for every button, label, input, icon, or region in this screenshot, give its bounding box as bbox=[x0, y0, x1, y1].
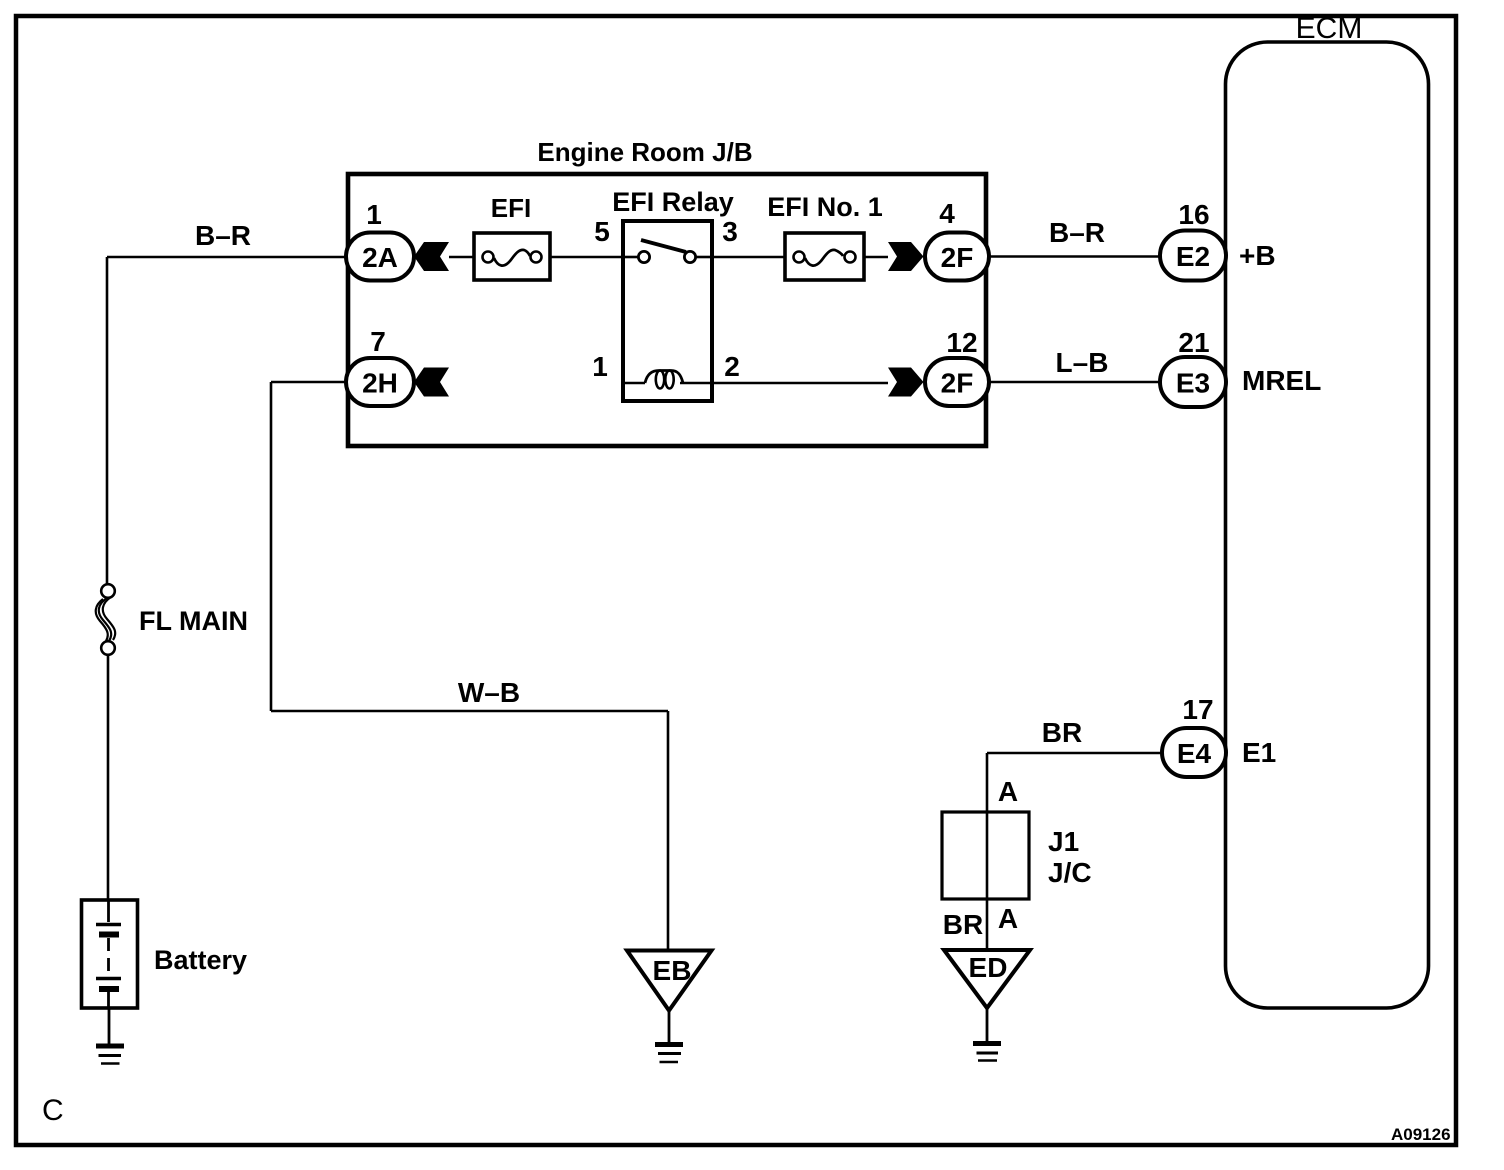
relay switch blade bbox=[641, 240, 686, 252]
svg-text:17: 17 bbox=[1182, 694, 1213, 725]
svg-text:2A: 2A bbox=[362, 242, 398, 273]
fuse EFI bbox=[474, 193, 550, 280]
svg-text:J1: J1 bbox=[1048, 826, 1079, 857]
svg-text:EFI: EFI bbox=[491, 193, 531, 223]
connector E3 body bbox=[1160, 357, 1226, 407]
wire L-B: 2F-12 to E3 bbox=[989, 347, 1160, 382]
wire B-R: 2F-4 to E2 bbox=[989, 217, 1160, 257]
svg-text:2: 2 bbox=[724, 351, 740, 382]
svg-text:A09126: A09126 bbox=[1391, 1125, 1451, 1144]
svg-text:FL MAIN: FL MAIN bbox=[139, 606, 248, 636]
connector E3 bbox=[1160, 327, 1226, 407]
ground at battery bbox=[96, 1008, 124, 1064]
relay coil bbox=[645, 371, 683, 384]
wire FL MAIN to battery bbox=[107, 655, 110, 899]
connector E2 body bbox=[1160, 231, 1226, 281]
svg-text:W–B: W–B bbox=[458, 677, 520, 708]
relay contact terminal left bbox=[638, 251, 649, 262]
svg-text:A: A bbox=[998, 776, 1018, 807]
svg-text:ED: ED bbox=[969, 952, 1008, 983]
splice arrow at 2F-12 bbox=[888, 368, 924, 397]
svg-text:1: 1 bbox=[366, 199, 382, 230]
svg-text:B–R: B–R bbox=[1049, 217, 1105, 248]
wire pin 1 to coil bbox=[623, 382, 645, 385]
wire 2A to fuse EFI bbox=[449, 256, 474, 259]
wire B-R: battery feed to connector 2A bbox=[107, 220, 345, 584]
wire relay pin 2 to connector 2F-12 bbox=[712, 382, 888, 385]
svg-text:C: C bbox=[42, 1094, 64, 1127]
svg-text:7: 7 bbox=[370, 326, 386, 357]
junction connector J1 J/C bbox=[942, 812, 1092, 899]
splice arrow at 2F-4 bbox=[888, 242, 924, 271]
relay box bbox=[623, 221, 712, 401]
svg-text:EFI No. 1: EFI No. 1 bbox=[767, 192, 883, 222]
connector 2F pin 4 bbox=[925, 198, 989, 281]
connector 2F pin 12 bbox=[925, 327, 989, 406]
svg-text:12: 12 bbox=[946, 327, 977, 358]
connector E2 bbox=[1160, 199, 1226, 281]
wire W-B: connector 2H to ground EB bbox=[271, 382, 668, 950]
wire fuse EFI to relay pin 5 bbox=[550, 256, 623, 259]
svg-text:E2: E2 bbox=[1176, 241, 1210, 272]
relay contact terminal right bbox=[684, 251, 695, 262]
svg-text:EB: EB bbox=[653, 955, 692, 986]
wire relay pin 3 to fuse EFI No.1 bbox=[712, 256, 785, 259]
svg-text:Engine Room J/B: Engine Room J/B bbox=[537, 137, 752, 167]
svg-text:MREL: MREL bbox=[1242, 365, 1321, 396]
svg-text:E3: E3 bbox=[1176, 368, 1210, 399]
wire coil to pin 2 bbox=[680, 382, 712, 385]
wire pin 5 to contact bbox=[623, 256, 638, 259]
svg-text:ECM: ECM bbox=[1296, 12, 1363, 45]
wire BR: junction J1 to E4 bbox=[987, 717, 1162, 950]
svg-text:4: 4 bbox=[939, 198, 955, 229]
fusible link FL MAIN bbox=[96, 584, 248, 655]
svg-text:2H: 2H bbox=[362, 368, 398, 399]
svg-text:+B: +B bbox=[1239, 240, 1276, 271]
connector 2A bbox=[346, 199, 414, 281]
connector 2H body bbox=[346, 358, 414, 406]
svg-text:B–R: B–R bbox=[195, 220, 251, 251]
splice arrow at 2A bbox=[414, 242, 449, 271]
svg-text:L–B: L–B bbox=[1056, 347, 1109, 378]
svg-text:5: 5 bbox=[594, 216, 610, 247]
ground point EB bbox=[627, 951, 712, 1063]
svg-text:1: 1 bbox=[592, 351, 608, 382]
connector 2H bbox=[346, 326, 414, 406]
connector 2F body bbox=[925, 233, 989, 281]
ground point ED bbox=[944, 950, 1030, 1061]
connector 2F body bbox=[925, 358, 989, 406]
svg-text:A: A bbox=[998, 903, 1018, 934]
fuse EFI No. 1 bbox=[767, 192, 883, 280]
Engine Room J/B block bbox=[348, 137, 986, 446]
connector 2A body bbox=[346, 233, 414, 281]
svg-text:21: 21 bbox=[1178, 327, 1209, 358]
wire contact to pin 3 bbox=[696, 256, 712, 259]
svg-text:16: 16 bbox=[1178, 199, 1209, 230]
svg-text:2F: 2F bbox=[941, 242, 974, 273]
connector E4 bbox=[1162, 694, 1226, 777]
svg-text:E1: E1 bbox=[1242, 737, 1276, 768]
svg-text:J/C: J/C bbox=[1048, 857, 1092, 888]
connector E4 body bbox=[1162, 728, 1226, 777]
svg-text:BR: BR bbox=[1042, 717, 1082, 748]
wire fuse EFI No.1 to connector 2F-4 bbox=[864, 256, 888, 259]
svg-text:E4: E4 bbox=[1177, 738, 1212, 769]
ECM block bbox=[1226, 12, 1429, 1008]
battery bbox=[82, 900, 248, 1008]
svg-text:Battery: Battery bbox=[154, 945, 247, 975]
svg-text:BR: BR bbox=[943, 909, 983, 940]
svg-text:EFI Relay: EFI Relay bbox=[612, 187, 734, 217]
svg-text:3: 3 bbox=[722, 216, 738, 247]
svg-text:2F: 2F bbox=[941, 368, 974, 399]
relay EFI Relay bbox=[592, 187, 740, 401]
splice arrow at 2H bbox=[414, 368, 449, 397]
